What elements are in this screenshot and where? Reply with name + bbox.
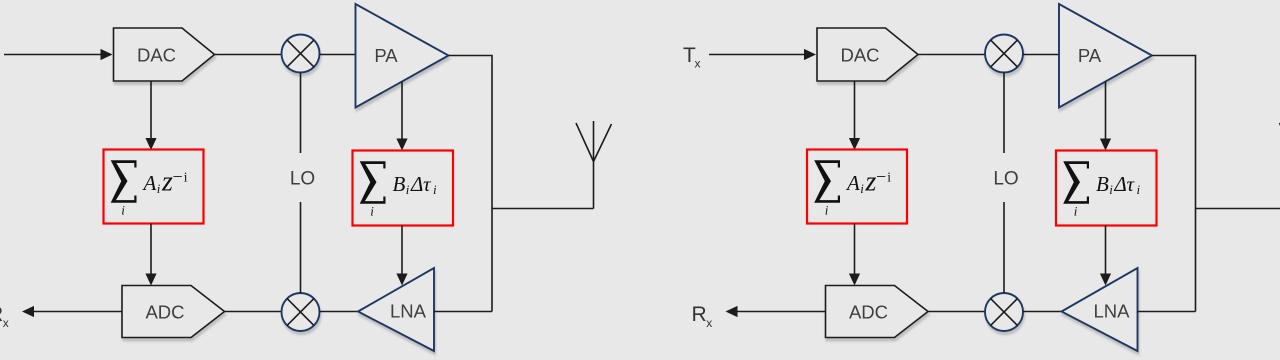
svg-text:i: i [1137,182,1141,197]
mixer M2 (downconverter, circle-X) (right) [985,293,1023,331]
amplifier PA (left) [356,4,449,108]
wire: LO line lower (right) [1003,202,1005,293]
svg-text:i: i [433,182,437,197]
svg-text:z: z [161,167,173,198]
svg-text:B: B [393,172,406,196]
wire: delay model box down into LNA (right) [1100,226,1111,286]
svg-text:ADC: ADC [849,301,888,322]
wire: model box output down into ADC (right) [849,224,860,286]
amplifier LNA (right) [1062,268,1138,351]
DAC block (right) [817,28,918,81]
svg-text:DAC: DAC [137,44,176,65]
svg-text:R: R [692,303,707,326]
svg-text:Δ: Δ [410,172,423,196]
svg-text:i: i [887,170,891,185]
svg-text:LNA: LNA [390,301,427,322]
wire: DAC tap down into FIR model box (right) [849,81,860,150]
mixer M2 (downconverter, circle-X) (left) [282,293,320,331]
wire: Tx input arrow into DAC (right) [709,49,816,60]
svg-text:i: i [825,203,829,218]
wire: PA output to feedback trunk (down right side) (right) [1152,56,1196,312]
wire: Tx input arrow into DAC (left) [4,49,113,60]
red box: delay model &#8721;B_i &#916;&#964;_i (left) [353,151,454,226]
antenna (left) [576,121,612,209]
node Rx label (right) [692,303,713,330]
svg-text:i: i [406,182,410,197]
wire: DAC output to upconversion mixer (right) [918,54,985,56]
ADC block (right) [826,286,929,338]
wire: mixer to PA input (right) [1023,54,1059,56]
svg-text:LO: LO [290,168,315,189]
wire: LO line lower (left) [300,202,302,293]
svg-text:−: − [173,167,183,187]
wire: DAC tap down into FIR model box (left) [145,81,156,150]
wire: branch to antenna (left) [492,208,594,210]
wire: LO line upper (right) [1003,73,1005,154]
amplifier LNA (left) [358,268,434,351]
amplifier PA (right) [1059,4,1152,108]
node Tx label (right diagram) [683,44,701,71]
red box: delay model &#8721;B_i &#916;&#964;_i (right) [1056,151,1157,226]
svg-text:B: B [1096,172,1109,196]
svg-text:−: − [876,167,886,187]
wire: mixer to PA input (left) [319,54,355,56]
wire: downconversion mixer to ADC (right) [928,311,985,313]
mixer M1 (upconverter, circle-X) (right) [985,35,1023,73]
wire: ADC output arrow to Rx (right) [726,306,826,317]
svg-text:i: i [1074,204,1078,219]
svg-text:x: x [706,316,712,330]
svg-text:PA: PA [374,45,398,66]
wire: PA tap down into delay model box (left) [396,82,407,151]
wire: model box output down into ADC (left) [145,224,156,286]
svg-text:i: i [121,203,125,218]
DAC block (left) [114,28,215,81]
svg-text:DAC: DAC [840,44,879,65]
wire: LNA output to mixer (left) [319,311,358,313]
wire: downconversion mixer to ADC (left) [225,311,282,313]
red box: digital model &#8721;A_i z^-i (right) [807,150,907,224]
mixer M1 (upconverter, circle-X) (left) [282,35,320,73]
svg-text:A: A [845,171,860,195]
svg-text:LNA: LNA [1094,301,1131,322]
wire: ADC output arrow to Rx (left) [22,306,122,317]
wire: LO line upper (left) [300,73,302,154]
svg-text:x: x [695,57,701,71]
red box: digital model &#8721;A_i z^-i (left) [104,150,204,224]
svg-text:i: i [184,170,188,185]
svg-text:i: i [860,181,864,196]
wire: branch to antenna (right) [1196,208,1280,210]
node Rx label (left) [0,303,9,330]
wire: PA output to feedback trunk (down right side) (left) [449,56,493,312]
wire: PA tap down into delay model box (right) [1100,82,1111,151]
svg-text:ADC: ADC [145,301,184,322]
ADC block (left) [122,286,225,338]
svg-text:LO: LO [993,168,1018,189]
wire: LNA output to mixer (right) [1023,311,1062,313]
svg-text:x: x [3,316,9,330]
svg-text:PA: PA [1078,45,1102,66]
wire: trunk to LNA input (right) [1138,311,1196,313]
wire: DAC output to upconversion mixer (left) [215,54,282,56]
svg-text:Δ: Δ [1114,172,1127,196]
svg-text:i: i [157,181,161,196]
svg-text:i: i [1109,182,1113,197]
wire: trunk to LNA input (left) [434,311,492,313]
svg-text:A: A [142,171,157,195]
svg-text:i: i [370,204,374,219]
wire: delay model box down into LNA (left) [396,226,407,286]
svg-text:z: z [865,167,877,198]
